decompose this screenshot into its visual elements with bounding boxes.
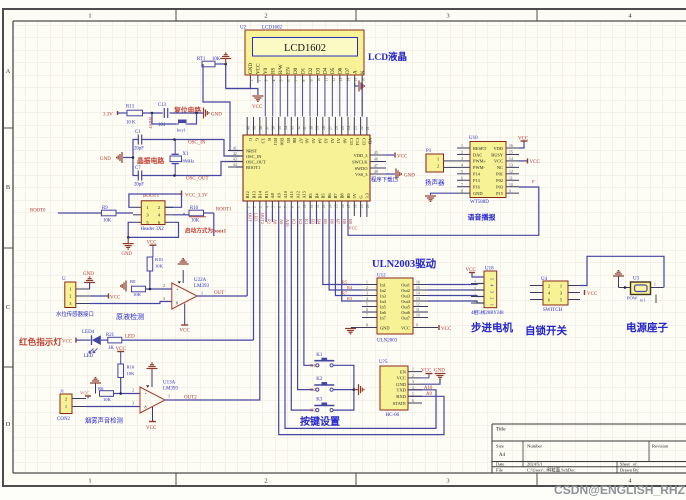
svg-text:C15: C15 <box>349 138 354 146</box>
svg-text:VCC: VCC <box>397 155 408 160</box>
svg-text:3: 3 <box>259 206 263 208</box>
wire OSC_OUT <box>142 162 243 176</box>
svg-text:P03: P03 <box>496 185 504 190</box>
wire switch pin1 loop to power socket <box>580 256 664 287</box>
svg-text:D0: D0 <box>293 67 299 74</box>
wire MCU pin14 to ULN In2 <box>329 210 362 290</box>
svg-text:K1: K1 <box>304 219 309 224</box>
svg-text:VSS_3: VSS_3 <box>355 172 368 177</box>
svg-text:VB: VB <box>368 138 373 144</box>
svg-text:B5: B5 <box>323 219 328 224</box>
svg-text:6: 6 <box>461 176 463 180</box>
LCD pin 6 stub <box>287 75 289 83</box>
svg-text:R5: R5 <box>342 280 347 285</box>
svg-text:3: 3 <box>446 13 449 20</box>
LCD pin 7 stub <box>294 75 296 83</box>
svg-text:10: 10 <box>509 183 513 187</box>
svg-text:3: 3 <box>461 157 463 161</box>
svg-text:B11: B11 <box>273 138 278 145</box>
svg-text:A12: A12 <box>295 191 300 199</box>
svg-text:16: 16 <box>509 144 513 148</box>
svg-text:B4: B4 <box>314 193 319 199</box>
power VCC at U10 VDD <box>519 142 524 149</box>
svg-text:R13: R13 <box>126 105 135 110</box>
svg-text:GND: GND <box>248 63 254 74</box>
svg-text:R10: R10 <box>155 257 163 262</box>
svg-text:2: 2 <box>412 374 414 378</box>
svg-text:程序下载口: 程序下载口 <box>371 176 398 184</box>
svg-text:11: 11 <box>416 308 420 312</box>
svg-text:VCC: VCC <box>252 105 263 110</box>
svg-text:B6: B6 <box>329 219 334 225</box>
svg-text:6: 6 <box>412 399 414 403</box>
svg-text:3.3: 3.3 <box>365 192 370 198</box>
wire LCD pin 15 to MCU <box>354 83 356 117</box>
wire LCD pin 9 to MCU <box>309 83 311 117</box>
svg-text:RESET: RESET <box>473 146 487 151</box>
svg-text:2: 2 <box>264 13 267 20</box>
svg-text:45: 45 <box>374 151 378 155</box>
svg-text:A10: A10 <box>285 219 290 226</box>
svg-text:VCC: VCC <box>349 226 358 231</box>
svg-text:1: 1 <box>168 394 170 399</box>
svg-text:P01: P01 <box>496 172 503 177</box>
svg-text:3.3: 3.3 <box>261 138 266 144</box>
svg-text:6: 6 <box>278 206 282 208</box>
svg-text:P02: P02 <box>496 178 503 183</box>
svg-text:Title: Title <box>496 427 506 433</box>
svg-text:44: 44 <box>233 163 237 167</box>
svg-text:VCC: VCC <box>518 137 529 142</box>
wire junction to VCC symbol below pin2 <box>226 89 258 96</box>
wire LCD pin 16 to MCU <box>361 83 363 117</box>
wire MCU pin8 K3 <box>291 210 313 410</box>
svg-text:DAC: DAC <box>473 152 482 157</box>
resistor R10 divider top <box>147 257 153 271</box>
svg-text:R10: R10 <box>127 365 135 370</box>
svg-text:GND: GND <box>211 113 222 118</box>
svg-text:5V: 5V <box>352 192 357 198</box>
svg-text:2: 2 <box>264 478 267 485</box>
svg-text:CON2: CON2 <box>57 417 71 422</box>
svg-text:A9: A9 <box>277 192 282 198</box>
svg-text:Header 3X2: Header 3X2 <box>141 227 165 232</box>
svg-text:26: 26 <box>335 126 339 130</box>
svg-text:P: P <box>532 179 535 184</box>
wire LCD pin 12 to MCU <box>331 83 333 117</box>
svg-text:D5: D5 <box>330 67 336 74</box>
power VCC sensor pin2 <box>90 295 108 297</box>
svg-text:20: 20 <box>366 204 370 208</box>
wires ULN outputs to stepper connector <box>428 284 484 285</box>
wire LCD pin 11 to MCU <box>324 83 326 117</box>
wire MCU pin13 to ULN In1 <box>323 210 362 285</box>
wire R21 to MCU pin2 vertical <box>122 339 254 341</box>
wire LCD pin 14 to MCU <box>346 83 348 117</box>
wire LCD pin 7 to MCU <box>294 83 296 117</box>
wire R10 down to R8 node <box>149 271 151 289</box>
svg-text:C: C <box>6 304 10 311</box>
wire VCC to LED4 <box>76 339 91 341</box>
svg-text:GND: GND <box>83 272 94 277</box>
wire opamp U22A output OUT <box>197 295 247 297</box>
svg-text:3: 3 <box>412 380 414 384</box>
svg-text:4相5线28BYJ48: 4相5线28BYJ48 <box>471 309 504 316</box>
svg-text:In3: In3 <box>380 293 387 298</box>
svg-text:D6: D6 <box>338 67 344 74</box>
svg-text:VCC: VCC <box>441 327 452 332</box>
LCD pin 15 stub <box>354 75 356 83</box>
svg-text:Number: Number <box>527 444 543 449</box>
svg-text:2: 2 <box>461 151 463 155</box>
diode LED4 <box>91 335 93 345</box>
svg-text:22: 22 <box>360 126 364 130</box>
svg-text:GND: GND <box>380 326 390 331</box>
svg-text:8: 8 <box>291 206 295 208</box>
MCU pins 18 19 20 stubs <box>353 210 355 216</box>
svg-text:VCC: VCC <box>80 391 89 396</box>
wire R10 left to header pin4 <box>173 214 189 216</box>
wire MCU pin3 OUT2 down <box>172 210 260 400</box>
svg-text:In2: In2 <box>380 288 386 293</box>
wire LCD pin 8 to MCU <box>302 83 304 117</box>
svg-text:40: 40 <box>246 126 250 130</box>
LCD pin 16 stub <box>361 75 363 83</box>
svg-text:B15: B15 <box>264 190 269 198</box>
svg-text:6: 6 <box>287 80 291 82</box>
svg-text:2: 2 <box>253 206 257 208</box>
svg-text:11: 11 <box>324 78 328 82</box>
svg-text:1: 1 <box>69 287 71 292</box>
power VCC ULN <box>438 325 440 330</box>
wire MCU pin2 LED down to LED row <box>253 210 255 340</box>
svg-text:OSC_IN: OSC_IN <box>246 154 262 159</box>
svg-text:4: 4 <box>366 297 368 301</box>
svg-text:B4: B4 <box>317 219 322 225</box>
svg-text:16: 16 <box>362 78 366 82</box>
svg-text:24: 24 <box>347 126 351 130</box>
svg-text:10: 10 <box>303 204 307 208</box>
ground right of C13 <box>204 108 209 119</box>
svg-text:ULN2003: ULN2003 <box>377 339 398 344</box>
ground above R8 smoke <box>90 378 101 383</box>
wire LCD pin 13 to MCU <box>339 83 341 117</box>
wire BOOT0 to R9 <box>58 212 102 214</box>
svg-text:7: 7 <box>284 206 288 208</box>
svg-text:B0: B0 <box>292 138 297 144</box>
header BOOT1 Header 3X2 <box>141 201 165 225</box>
svg-text:2: 2 <box>132 388 134 393</box>
svg-text:B13: B13 <box>251 190 256 198</box>
svg-text:4: 4 <box>412 386 414 390</box>
svg-text:7: 7 <box>461 183 463 187</box>
svg-text:13: 13 <box>322 204 326 208</box>
svg-text:2: 2 <box>65 397 67 402</box>
svg-text:A10: A10 <box>424 386 433 391</box>
svg-text:36: 36 <box>272 126 276 130</box>
svg-text:VCC: VCC <box>587 292 598 297</box>
svg-text:1: 1 <box>250 80 254 82</box>
svg-text:A10: A10 <box>283 190 288 198</box>
svg-text:VCC: VCC <box>110 296 121 301</box>
svg-text:1K: 1K <box>108 346 114 351</box>
svg-text:5: 5 <box>280 80 284 82</box>
svg-text:K2: K2 <box>316 377 323 382</box>
svg-text:2: 2 <box>163 283 165 288</box>
wire R8 to opamp input <box>114 393 141 395</box>
svg-text:C14: C14 <box>355 138 360 146</box>
svg-text:34: 34 <box>284 126 288 130</box>
svg-text:BOOT1: BOOT1 <box>246 165 260 170</box>
svg-text:In5: In5 <box>380 304 387 309</box>
svg-text:10K: 10K <box>191 219 200 224</box>
svg-text:8: 8 <box>461 189 463 193</box>
svg-text:J1: J1 <box>60 389 65 394</box>
svg-text:红色指示灯: 红色指示灯 <box>19 336 62 347</box>
svg-text:U: U <box>62 277 66 282</box>
svg-text:37: 37 <box>265 126 269 130</box>
svg-text:B6: B6 <box>327 193 332 199</box>
svg-text:32: 32 <box>297 126 301 130</box>
svg-text:Sheet of: Sheet of <box>620 462 637 467</box>
opamp U13A LM393 <box>140 387 165 413</box>
svg-text:R8: R8 <box>130 279 136 284</box>
svg-text:B14: B14 <box>258 190 263 198</box>
wire R13 to C13 <box>143 112 163 114</box>
svg-text:U3: U3 <box>633 277 640 282</box>
svg-text:R: R <box>267 138 272 141</box>
svg-text:A5: A5 <box>311 138 316 144</box>
ground keys common <box>354 389 358 391</box>
svg-text:LM393: LM393 <box>163 387 179 392</box>
svg-text:原液检测: 原液检测 <box>116 312 144 321</box>
wire MCU pin16 to ULN In4 <box>342 210 362 301</box>
svg-text:10K: 10K <box>103 219 112 224</box>
svg-text:A4: A4 <box>317 138 322 144</box>
svg-text:3.3V: 3.3V <box>103 113 113 118</box>
svg-text:B9: B9 <box>346 193 351 199</box>
svg-text:3: 3 <box>132 401 134 406</box>
ground above RT1 <box>220 53 231 58</box>
svg-text:语音播报: 语音播报 <box>468 212 497 221</box>
svg-text:1: 1 <box>437 157 439 162</box>
wire LCD pin16 down <box>361 83 363 117</box>
svg-text:27: 27 <box>328 126 332 130</box>
svg-text:In4: In4 <box>380 299 387 304</box>
svg-text:LCD1602: LCD1602 <box>284 43 326 54</box>
svg-text:VCC: VCC <box>62 340 73 345</box>
wire LCD pin 6 to MCU <box>287 83 289 117</box>
wire MCU pin7 A10 to HC06 TXD <box>285 210 436 428</box>
svg-text:VCC_3.3V: VCC_3.3V <box>185 194 208 199</box>
svg-text:U?5: U?5 <box>379 360 388 365</box>
svg-text:2: 2 <box>257 80 261 82</box>
svg-text:GND: GND <box>473 191 483 196</box>
svg-text:B10: B10 <box>280 138 285 146</box>
svg-text:9: 9 <box>416 324 418 328</box>
svg-text:7: 7 <box>295 80 299 82</box>
svg-text:1: 1 <box>88 13 91 20</box>
svg-text:In1: In1 <box>380 282 386 287</box>
svg-text:12: 12 <box>416 303 420 307</box>
svg-text:TXD: TXD <box>397 388 407 393</box>
svg-text:CSDN@ENGLISH_RHZ: CSDN@ENGLISH_RHZ <box>554 483 685 497</box>
svg-text:5: 5 <box>461 170 463 174</box>
svg-text:P1: P1 <box>426 149 432 154</box>
svg-text:31: 31 <box>303 126 307 130</box>
svg-text:Revision: Revision <box>652 444 669 449</box>
LCD pin 11 stub <box>324 75 326 83</box>
wire caps left rail <box>133 140 138 176</box>
LCD pin 8 stub <box>302 75 304 83</box>
svg-text:1: 1 <box>412 368 414 372</box>
svg-text:OSC_IN: OSC_IN <box>188 141 206 146</box>
svg-text:R4: R4 <box>347 285 353 290</box>
svg-text:ROOT1: ROOT1 <box>216 208 232 213</box>
svg-text:File: File <box>496 468 503 473</box>
LCD pin 3 stub <box>264 75 266 83</box>
opamp U22A power stubs <box>182 270 184 283</box>
svg-text:11: 11 <box>309 204 313 208</box>
svg-text:VCC: VCC <box>180 329 191 334</box>
svg-text:In6: In6 <box>380 310 387 315</box>
svg-text:B7: B7 <box>333 193 338 199</box>
svg-text:3: 3 <box>446 478 449 485</box>
svg-text:A2: A2 <box>330 138 335 143</box>
svg-text:2: 2 <box>437 164 439 169</box>
svg-text:5: 5 <box>412 392 414 396</box>
svg-text:Out7: Out7 <box>401 315 411 320</box>
svg-text:17: 17 <box>347 204 351 208</box>
wire LCD pin 4 to MCU <box>272 83 274 117</box>
svg-text:29: 29 <box>316 126 320 130</box>
svg-text:D2: D2 <box>308 67 314 74</box>
svg-text:8: 8 <box>302 80 306 82</box>
svg-text:按键设置: 按键设置 <box>300 415 340 428</box>
svg-text:14: 14 <box>509 157 513 161</box>
svg-text:13: 13 <box>416 297 420 301</box>
crystal X1 <box>170 156 182 162</box>
svg-text:4: 4 <box>474 280 476 284</box>
LCD pin 2 stub <box>257 75 259 83</box>
wire left rail to ground <box>123 157 133 159</box>
svg-text:Out2: Out2 <box>401 288 410 293</box>
svg-text:D3: D3 <box>315 67 321 74</box>
LCD pin 1 stub <box>249 75 251 83</box>
MCU pin4 pin5 stubs <box>265 210 267 222</box>
svg-text:NRST: NRST <box>246 148 258 153</box>
wire opamp U13A output OUT2 <box>165 399 172 401</box>
svg-text:10K: 10K <box>155 264 164 269</box>
svg-text:自锁开关: 自锁开关 <box>525 324 567 337</box>
svg-text:A9: A9 <box>426 392 432 397</box>
svg-text:GND: GND <box>100 157 111 162</box>
svg-text:30: 30 <box>309 126 313 130</box>
svg-text:9: 9 <box>509 189 511 193</box>
svg-text:2: 2 <box>548 284 550 289</box>
svg-text:K2: K2 <box>298 219 303 224</box>
svg-text:6: 6 <box>366 308 368 312</box>
LCD pin 9 stub <box>309 75 311 83</box>
svg-text:4: 4 <box>265 206 269 208</box>
svg-text:水位传感器接口: 水位传感器接口 <box>56 310 94 318</box>
svg-text:8MHz: 8MHz <box>183 159 195 164</box>
svg-text:21: 21 <box>366 126 370 130</box>
svg-text:A15: A15 <box>302 190 307 198</box>
svg-text:HC-06: HC-06 <box>386 413 400 418</box>
svg-text:U10: U10 <box>469 136 478 141</box>
wire MCU pin17 to voice chip loop <box>348 187 539 235</box>
svg-text:扬声器: 扬声器 <box>425 178 445 187</box>
ground at U10 GND pin <box>431 193 458 195</box>
svg-text:P15: P15 <box>496 191 504 196</box>
svg-text:晶振电路: 晶振电路 <box>137 156 164 165</box>
ground at power socket <box>613 271 624 276</box>
svg-text:LED: LED <box>84 354 94 359</box>
title block <box>492 424 686 473</box>
svg-text:B12: B12 <box>245 191 250 198</box>
svg-text:18: 18 <box>354 204 358 208</box>
wire header loop top to VCC_3.3V <box>129 194 182 207</box>
svg-text:2: 2 <box>366 286 368 290</box>
wire LED4 to R21 <box>101 339 108 341</box>
svg-text:NC: NC <box>497 165 503 170</box>
svg-text:8: 8 <box>366 324 368 328</box>
svg-text:14: 14 <box>347 78 351 82</box>
svg-text:8: 8 <box>145 405 147 410</box>
svg-text:Out1: Out1 <box>401 282 410 287</box>
wire key1 branch <box>152 113 176 124</box>
svg-text:LED: LED <box>254 213 259 221</box>
svg-text:48: 48 <box>374 170 378 174</box>
svg-text:K3: K3 <box>316 398 323 403</box>
wire R10 down to R8 row <box>120 378 122 394</box>
svg-text:28: 28 <box>322 126 326 130</box>
svg-text:19: 19 <box>360 204 364 208</box>
svg-text:R7: R7 <box>342 291 348 296</box>
svg-text:4: 4 <box>272 80 276 82</box>
svg-text:A8: A8 <box>270 192 275 198</box>
svg-text:PWM-: PWM- <box>473 165 485 170</box>
svg-text:BOOT1: BOOT1 <box>143 194 160 199</box>
wire LCD pin 5 to MCU <box>279 83 281 117</box>
power VCC switch <box>584 290 586 295</box>
svg-text:47: 47 <box>374 164 378 168</box>
wire R9 to header pin3 <box>116 212 133 214</box>
svg-text:步进电机: 步进电机 <box>471 321 513 334</box>
wire sensor pin3 to opamp <box>90 302 172 304</box>
svg-text:WT588D: WT588D <box>470 200 489 205</box>
svg-text:启动方式为boot1: 启动方式为boot1 <box>185 227 227 235</box>
svg-text:12: 12 <box>332 78 336 82</box>
svg-text:EN: EN <box>285 67 291 74</box>
svg-text:VCC: VCC <box>530 160 541 165</box>
resistor R10 smoke divider <box>118 364 124 378</box>
LCD pin 4 stub <box>272 75 274 83</box>
wire RT1 left down to NRST node <box>203 64 243 151</box>
svg-text:OUT: OUT <box>214 291 224 296</box>
wire 3.3V to R13 <box>117 111 119 115</box>
svg-text:16: 16 <box>341 204 345 208</box>
svg-text:POW: POW <box>627 296 638 301</box>
svg-text:OUT2: OUT2 <box>184 396 197 401</box>
svg-text:10K: 10K <box>127 371 136 376</box>
LCD pin 5 stub <box>279 75 281 83</box>
ground below header loop <box>127 237 129 243</box>
svg-text:电源座子: 电源座子 <box>626 321 668 334</box>
svg-text:7: 7 <box>366 314 368 318</box>
svg-text:In7: In7 <box>380 315 387 320</box>
